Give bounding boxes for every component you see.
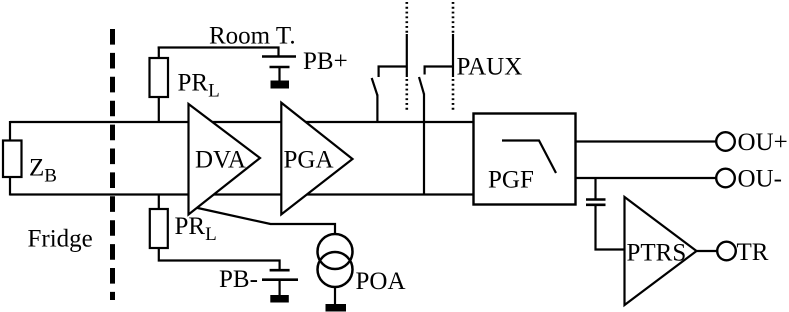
battery PB- <box>262 270 298 295</box>
switch S2 actuator dotted line <box>452 2 455 111</box>
wire bottom rail <box>10 193 474 195</box>
ground PB- <box>270 295 289 303</box>
svg-text:PAUX: PAUX <box>457 54 523 81</box>
battery PB+ <box>262 57 296 82</box>
op-amp DVA <box>189 104 261 215</box>
wire PGF to OU+ <box>576 140 717 142</box>
switch S1 actuator dotted line <box>405 2 408 111</box>
switch S1 contact <box>379 67 407 78</box>
svg-text:PTRS: PTRS <box>627 240 687 267</box>
svg-text:DVA: DVA <box>195 147 246 174</box>
resistor ZB <box>3 141 22 178</box>
resistor PRL bottom <box>150 194 280 271</box>
terminal OU- <box>716 169 735 188</box>
svg-text:Room T.: Room T. <box>209 23 296 50</box>
svg-text:Fridge: Fridge <box>28 226 93 253</box>
svg-text:PGA: PGA <box>284 147 334 174</box>
op-amp PTRS <box>625 197 697 305</box>
wire switch2 to bottom rail <box>423 94 425 196</box>
svg-text:PGF: PGF <box>488 167 534 194</box>
current source POA <box>318 234 353 305</box>
switch S2 contact <box>425 67 453 75</box>
ground PB+ <box>271 81 290 89</box>
resistor PRL top <box>150 47 169 124</box>
capacitor C1 <box>586 179 626 250</box>
svg-text:PB+: PB+ <box>303 48 348 75</box>
svg-text:OU-: OU- <box>738 166 782 193</box>
terminal TR <box>717 242 736 261</box>
svg-text:TR: TR <box>737 239 769 266</box>
filter PGF box <box>474 114 576 205</box>
wire switch1 to top rail <box>376 95 378 124</box>
ground POA <box>326 304 347 312</box>
wire top rail <box>10 121 474 123</box>
dashed fridge boundary <box>110 29 115 300</box>
op-amp PGA <box>281 103 352 215</box>
svg-text:PB-: PB- <box>219 266 258 293</box>
wire PTRS to TR <box>697 250 718 252</box>
switch S1 blade <box>372 78 378 95</box>
svg-text:POA: POA <box>356 268 406 295</box>
wire DVA tap to POA <box>196 208 336 235</box>
switch S2 blade <box>419 77 424 94</box>
terminal OU+ <box>716 132 735 151</box>
svg-text:OU+: OU+ <box>738 129 788 156</box>
wire left loop vertical <box>9 121 11 196</box>
wire Room T. bias <box>158 48 279 58</box>
wire PGF to OU- <box>576 177 717 179</box>
